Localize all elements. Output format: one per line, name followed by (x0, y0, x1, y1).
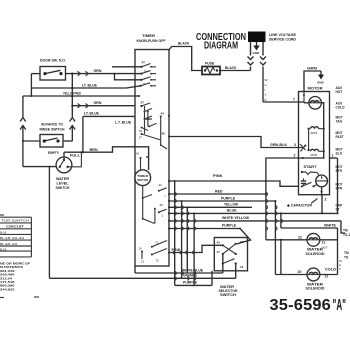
svg-text:2: 2 (294, 154, 296, 158)
wire door switch left down to rinse switch (23, 74, 40, 141)
wire GRN lower to timer (72, 100, 135, 108)
svg-text:1: 1 (332, 154, 334, 158)
svg-text:B-18: B-18 (0, 247, 7, 251)
motor start winding (301, 175, 328, 195)
wire service cord left prong to fuse (220, 42, 254, 71)
timer contacts lower (142, 183, 167, 224)
cold water solenoid (275, 268, 337, 291)
svg-text:HOT: HOT (336, 90, 343, 94)
svg-text:61: 61 (136, 152, 140, 156)
svg-text:SOLENOID: SOLENOID (306, 252, 325, 256)
svg-text:ST: ST (336, 208, 340, 212)
title CONNECTION DIAGRAM (196, 32, 246, 52)
svg-text:WHITE-YELLOW: WHITE-YELLOW (222, 215, 249, 220)
wire BLUE to capacitor (169, 195, 339, 215)
svg-text:SERVICE CORD: SERVICE CORD (269, 38, 296, 42)
timer contacts upper (112, 61, 156, 98)
svg-text:PURPLE: PURPLE (221, 195, 235, 200)
svg-text:BLACK: BLACK (178, 41, 190, 46)
svg-text:16: 16 (240, 265, 244, 269)
wire ORANGE (49, 273, 235, 279)
svg-text:10: 10 (139, 247, 143, 251)
svg-text:RINSE SWITCH: RINSE SWITCH (40, 128, 65, 132)
svg-text:LT. BLUE: LT. BLUE (84, 111, 99, 116)
svg-text:SPN: SPN (336, 187, 343, 191)
svg-text:T: T (265, 93, 267, 97)
svg-text:1T: 1T (139, 136, 143, 140)
timer right edge pin dots (168, 180, 170, 254)
svg-text:STR: STR (336, 169, 343, 173)
svg-text:4T: 4T (142, 61, 146, 65)
svg-text:B-18: B-18 (0, 230, 7, 234)
svg-text:FULL: FULL (70, 154, 81, 158)
svg-text:72: 72 (156, 259, 160, 263)
svg-text:SOLENOID: SOLENOID (306, 287, 325, 291)
wire hot solenoid feed (266, 235, 307, 274)
wire motor pin2 to pink junction (266, 154, 299, 240)
timer motor TM (135, 152, 151, 186)
svg-text:BRN: BRN (90, 147, 98, 152)
capacitor C1 (286, 178, 318, 207)
svg-text:17: 17 (217, 250, 221, 254)
svg-text:20: 20 (298, 270, 302, 274)
svg-text:TO-1: TO-1 (343, 233, 350, 237)
svg-text:HOT: HOT (322, 246, 329, 250)
svg-text:TM: TM (343, 229, 348, 233)
svg-text:SWITCH: SWITCH (56, 186, 70, 190)
svg-text:GRN: GRN (94, 68, 102, 73)
svg-text:FUSE: FUSE (205, 62, 215, 66)
motor ground GRN (303, 66, 325, 96)
svg-text:DIAGRAM: DIAGRAM (204, 41, 238, 52)
svg-text:BLUE: BLUE (227, 208, 237, 213)
patent text block (0, 262, 30, 292)
svg-text:18: 18 (240, 240, 244, 244)
svg-text:7: 7 (293, 98, 295, 102)
svg-text:KNOB-PUSH OFF: KNOB-PUSH OFF (137, 39, 167, 43)
water selector switch (214, 238, 247, 298)
service cord plug (248, 32, 297, 43)
svg-text:RPM: RPM (311, 153, 318, 157)
wire PINK short timer to selector (169, 245, 223, 252)
svg-text:61: 61 (139, 129, 143, 133)
motor main winding (299, 92, 325, 110)
svg-text:EMPTY: EMPTY (48, 151, 60, 155)
svg-text:21: 21 (322, 241, 326, 245)
svg-text:TM: TM (344, 251, 349, 255)
svg-text:PURPLE: PURPLE (183, 280, 197, 285)
wire LT BLUE lower (83, 111, 135, 125)
hot water solenoid (306, 233, 338, 256)
door switch (40, 59, 66, 81)
wire WHITE-BLUE (135, 266, 223, 273)
svg-text:T: T (339, 267, 341, 271)
wire LT BLUE upper (31, 82, 126, 88)
svg-text:SLO: SLO (336, 152, 343, 156)
svg-text:22: 22 (298, 235, 302, 239)
svg-text:WATER: WATER (56, 177, 69, 181)
svg-text:H: H (265, 83, 267, 87)
timer contacts middle (139, 101, 171, 150)
svg-text:B-18-19: B-18-19 (0, 242, 18, 246)
wire BRN from water level to timer motor (64, 147, 149, 170)
svg-text:12: 12 (141, 260, 145, 264)
right margin labels (336, 86, 350, 260)
svg-text:BLACK: BLACK (225, 66, 237, 70)
svg-text:LT. BLUE: LT. BLUE (82, 82, 97, 87)
svg-text:PINK: PINK (213, 173, 223, 178)
wire PURPLE upper (169, 195, 276, 274)
svg-text:RED: RED (215, 188, 223, 193)
svg-text:GRN: GRN (94, 100, 102, 105)
svg-text:COLD: COLD (325, 268, 337, 272)
wire YELLOW (169, 202, 252, 208)
svg-text:43: 43 (161, 112, 165, 116)
svg-text:START: START (304, 165, 318, 169)
crossing hops on verticals (173, 192, 282, 280)
motor speed contacts (299, 127, 325, 157)
svg-text:◆ CAPACITOR: ◆ CAPACITOR (286, 204, 313, 208)
svg-text:L.T. BLUE: L.T. BLUE (115, 119, 131, 124)
left margin speck (0, 215, 39, 298)
wire BLACK timer to fuse (169, 41, 202, 71)
svg-text:35-6596: 35-6596 (270, 297, 332, 314)
motor internal bus (323, 103, 325, 159)
svg-text:38: 38 (160, 203, 164, 207)
svg-text:TOR SWITCH: TOR SWITCH (1, 219, 29, 223)
svg-text:ADVANCE TO: ADVANCE TO (41, 123, 63, 127)
svg-text:DOOR SW. N.O.: DOOR SW. N.O. (40, 59, 66, 63)
svg-text:GND: GND (253, 51, 261, 55)
motor assembly box (299, 87, 330, 195)
ground symbol below plug (253, 42, 261, 55)
wire left riser to water level switch (20, 96, 56, 167)
svg-text:YELLOW: YELLOW (224, 202, 238, 207)
wire door switch to timer GRN (66, 68, 136, 76)
wire water level down to orange run (48, 166, 50, 279)
selector switch circuit table (0, 217, 31, 257)
svg-text:W: W (265, 78, 268, 82)
svg-text:7AG: 7AG (336, 120, 343, 124)
svg-text:FAST: FAST (336, 135, 344, 139)
part number 35-6596 A (270, 297, 347, 314)
svg-text:344,623: 344,623 (0, 287, 15, 291)
svg-text:43: 43 (217, 241, 221, 245)
svg-text:WHITE-BLUE: WHITE-BLUE (182, 267, 203, 272)
wire RED (169, 188, 267, 195)
motor start contacts (301, 165, 319, 176)
svg-text:42: 42 (162, 132, 166, 136)
svg-text:LEVEL: LEVEL (57, 182, 70, 186)
svg-text:MOTOR: MOTOR (308, 87, 324, 91)
svg-text:WHITE: WHITE (324, 222, 336, 227)
svg-text:GRN: GRN (307, 66, 318, 70)
svg-text:GND: GND (317, 81, 325, 85)
svg-text:2: 2 (325, 198, 327, 202)
svg-text:TIMER: TIMER (142, 34, 156, 38)
dropper risers timer to lower runs (174, 180, 195, 286)
fuse F1 (202, 62, 237, 75)
timer box (135, 34, 169, 266)
wire PINK long to motor start (169, 173, 299, 186)
svg-text:TO: TO (344, 256, 349, 260)
wire service cord right prong down to motor pin 7 (260, 42, 299, 102)
motor pin2 internal (299, 154, 338, 214)
wire lt blue lower riser (82, 116, 84, 153)
svg-text:CIRCUIT: CIRCUIT (6, 225, 24, 229)
wire WHITE-YELLOW (169, 215, 345, 233)
wire PURPLE lower bundle (169, 223, 251, 244)
svg-text:3: 3 (294, 143, 296, 147)
wire 42 GRN-BLK to motor (169, 137, 299, 148)
svg-text:RPM: RPM (311, 131, 318, 135)
svg-text:COLD: COLD (336, 106, 346, 110)
svg-text:MOTOR: MOTOR (137, 178, 149, 182)
svg-text:32: 32 (159, 183, 163, 187)
water level switch (48, 151, 81, 190)
svg-text:PURPLE: PURPLE (222, 223, 236, 228)
wire YELLOW-RED (23, 90, 135, 97)
timer contacts bottom (139, 241, 168, 264)
wire WHITE (281, 213, 342, 274)
rinse switch (40, 123, 65, 148)
wire PURPLE bottom (175, 271, 212, 286)
svg-text:2T: 2T (141, 101, 145, 105)
svg-text:"A": "A" (333, 297, 347, 314)
svg-text:LINE VOLTAGE: LINE VOLTAGE (269, 33, 297, 37)
wire rinse switch right riser (63, 73, 75, 142)
svg-text:SWITCH: SWITCH (220, 293, 237, 297)
svg-text:B-18-19-43: B-18-19-43 (0, 236, 25, 240)
svg-text:GRN-BLK: GRN-BLK (270, 142, 287, 147)
